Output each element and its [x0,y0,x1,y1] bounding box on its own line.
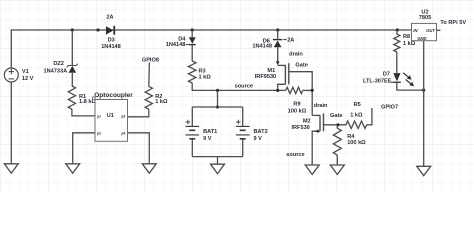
svg-text:D7: D7 [383,72,390,78]
node junction DZ2/rail [71,28,74,31]
wire DZ2 branch [71,30,73,86]
wire U2 OUT stub [437,29,441,31]
svg-text:V1: V1 [22,69,29,75]
svg-text:p4: p4 [121,132,125,136]
node drain label M2 [314,103,328,109]
diode D6 1N4148 2A [252,37,294,49]
ground [142,164,156,173]
node Gate label M1 [295,62,307,68]
svg-text:100 kΩ: 100 kΩ [288,109,307,115]
wire R2 to optocoupler pin3 [128,109,149,117]
svg-text:Gate: Gate [330,113,342,119]
wire D6 drain column [277,30,279,62]
svg-text:GPIO8: GPIO8 [142,57,159,63]
wire R9 to gate link [303,89,313,91]
ground [417,166,431,175]
svg-text:1N4148: 1N4148 [101,44,121,50]
transistor M2 IRF530 [291,113,323,165]
node source label [235,84,253,90]
ground [66,164,80,173]
op-amp U1 optocoupler box [92,92,133,141]
wire optocoupler pin2 to ground [73,133,95,164]
node junction battery rail [216,105,219,108]
voltage source V1 12 V [4,68,33,82]
svg-text:100 kΩ: 100 kΩ [347,140,366,146]
node junction D6/rail [276,28,279,31]
node junction R4 tap [336,123,339,126]
diode D3 1N4148 2A [101,14,121,50]
wire top power rail [11,30,411,68]
svg-text:Optocoupler: Optocoupler [94,92,133,99]
svg-text:1 kΩ: 1 kΩ [403,41,416,47]
node To RPi 5V [440,20,466,26]
node junction D7/GND column [422,89,425,92]
svg-text:Gate: Gate [295,62,307,68]
svg-text:2A: 2A [106,14,113,20]
svg-text:IRF9530: IRF9530 [255,74,276,80]
node drain label M1 [289,52,303,58]
svg-text:LTL-307EE: LTL-307EE [363,79,392,85]
node junction R9/gate link [311,89,314,92]
svg-text:M1: M1 [267,68,275,74]
wire R8 to D7 [396,52,398,73]
wire GPIO8 to R2 [148,63,151,87]
wire D4 to R3 [191,30,193,61]
wire U2 GND to ground [423,41,425,167]
svg-text:12 V: 12 V [22,76,34,82]
diode D4 1N4148 [166,37,196,48]
ground [4,164,18,173]
svg-text:DZ2: DZ2 [53,61,64,67]
svg-text:R4: R4 [347,134,355,140]
transistor M1 IRF9530 [255,61,289,90]
svg-text:U1: U1 [107,113,114,119]
svg-text:drain: drain [314,103,328,109]
svg-text:p3: p3 [121,115,125,119]
node junction D4/rail [191,28,194,31]
svg-text:p1: p1 [97,115,101,119]
wire source rail [192,83,286,90]
svg-text:7805: 7805 [419,15,431,21]
wire D7 to GND column [397,83,424,90]
wire M2 gate lead [324,124,347,126]
svg-text:R5: R5 [354,102,361,108]
ground [330,165,344,174]
svg-text:1 kΩ: 1 kΩ [350,113,363,119]
resistor R2 1 kOhm [145,86,168,109]
wire optocoupler pin4 to ground [128,133,150,164]
node junction M1 source/rail [276,89,279,92]
svg-text:1N4148: 1N4148 [166,42,186,48]
resistor R8 1 kOhm [394,30,416,52]
battery BAT1 9 V [186,107,218,157]
node Gate label M2 [330,113,342,119]
wire R1 to optocoupler pin1 [72,109,95,116]
resistor R4 100 kOhm [333,125,366,155]
zener diode DZ2 1N4733A [44,61,78,74]
wire R5 to GPIO7 stub [367,108,372,125]
svg-text:GND: GND [417,36,426,41]
svg-text:1N4148: 1N4148 [252,44,272,50]
svg-text:M2: M2 [303,119,311,125]
LED D7 LTL-307EE [363,72,414,87]
svg-text:source: source [235,84,253,90]
svg-text:1N4733A: 1N4733A [44,69,68,75]
svg-text:1 kΩ: 1 kΩ [199,74,212,80]
svg-text:BAT2: BAT2 [254,129,268,135]
resistor R1 1.8 kOhm [68,86,96,109]
svg-text:9 V: 9 V [254,136,263,142]
node junction R8/rail [396,28,399,31]
svg-text:1 kΩ: 1 kΩ [155,99,168,105]
node junction D3 anode [96,28,99,31]
wire battery top rail [192,106,242,108]
wire battery bottom rail [192,157,242,165]
svg-text:source: source [286,152,304,158]
wire V1 to ground [10,82,12,164]
op-amp U2 7805 regulator [412,10,437,41]
resistor R5 1 kOhm [346,102,367,128]
node source label M2 [286,152,304,158]
svg-text:BAT1: BAT1 [203,129,217,135]
svg-text:IRF530: IRF530 [291,125,309,131]
svg-text:p2: p2 [97,132,101,136]
resistor R3 1 kOhm [188,61,211,83]
svg-text:GPIO7: GPIO7 [381,105,398,111]
svg-text:2A: 2A [287,37,294,43]
ground [211,164,225,173]
battery BAT2 9 V [236,107,268,157]
svg-text:drain: drain [289,52,303,58]
wire battery stub [217,90,219,107]
wire R4 to ground [336,155,338,165]
svg-text:OUT: OUT [426,28,435,33]
svg-text:R9: R9 [293,102,300,108]
node junction battery stub top [216,89,219,92]
svg-text:9 V: 9 V [203,136,212,142]
svg-text:R8: R8 [403,34,410,40]
wire M1 gate to M2 drain link [289,72,312,116]
resistor R9 100 kOhm [286,87,307,114]
svg-text:To RPi 5V: To RPi 5V [440,20,466,26]
svg-text:D3: D3 [108,38,115,44]
ground [305,165,319,174]
node GPIO8 [142,57,159,63]
node GPIO7 [381,105,398,111]
